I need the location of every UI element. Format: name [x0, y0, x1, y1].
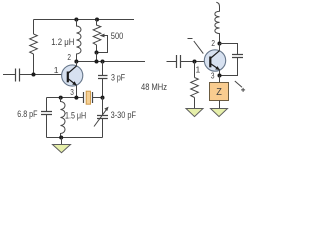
variable capacitor C4 3-30 pF: [97, 116, 108, 119]
ground GND1: [53, 138, 71, 153]
svg-text:6.8 pF: 6.8 pF: [17, 109, 38, 119]
capacitor C5 feedback: [232, 55, 243, 58]
capacitor C3 6.8 pF: [41, 112, 52, 115]
crystal Y1: [84, 91, 93, 104]
wire top rail Vcc: [34, 19, 135, 21]
wire input left: [3, 74, 16, 76]
leader line to Q2: [188, 39, 204, 54]
resistor R1: [30, 34, 38, 54]
wire Q1 collector: [76, 62, 78, 67]
svg-text:1: 1: [54, 65, 59, 75]
wire bottom row: [47, 137, 103, 139]
wire supply hook top right: [216, 2, 219, 7]
capacitor C3 6.8 pF wire upper: [46, 98, 48, 112]
ground GND3: [211, 109, 228, 117]
capacitor C1 input: [16, 69, 20, 82]
wire crystal to right node: [93, 97, 103, 99]
node bottom dot: [59, 136, 63, 140]
transistor Q2: [204, 50, 225, 71]
wire node2 rail: [77, 61, 146, 63]
node collector dot Q2: [218, 42, 222, 46]
svg-text:3: 3: [70, 87, 74, 97]
node base dot: [32, 73, 36, 77]
node3 dot inductor: [59, 96, 63, 100]
svg-text:Z: Z: [216, 86, 222, 98]
node emitter dot Q2: [218, 74, 222, 78]
svg-text:500: 500: [111, 31, 124, 41]
wire Q2 collector: [219, 44, 221, 52]
wire C6 to base: [181, 61, 205, 63]
svg-text:1: 1: [196, 64, 201, 74]
wire left bias branch upper: [33, 20, 35, 35]
svg-text:3 pF: 3 pF: [111, 73, 125, 83]
wire collector branch right: [220, 44, 238, 55]
plus marker: [241, 88, 245, 92]
capacitor C2 3 pF: [98, 76, 108, 79]
svg-text:2: 2: [67, 52, 71, 62]
impedance Z box: [210, 76, 229, 101]
potentiometer 500 body: [93, 20, 101, 53]
svg-text:1.5 μH: 1.5 μH: [65, 111, 86, 121]
wire input right stage: [167, 61, 177, 63]
svg-text:2: 2: [211, 38, 215, 48]
potentiometer wiper arm: [97, 36, 108, 53]
wire Q1 emitter: [76, 85, 78, 98]
potentiometer wiper arrowhead: [100, 34, 105, 38]
leader line to plus: [235, 81, 242, 87]
wire Z to ground: [219, 101, 221, 109]
svg-text:48 MHz: 48 MHz: [141, 82, 167, 92]
wire C2 lower: [102, 79, 104, 98]
node2 dot pot: [95, 60, 99, 64]
node base dot Q2: [193, 60, 197, 64]
svg-text:3: 3: [211, 71, 215, 81]
inductor 1.5 uH: [61, 98, 66, 138]
wire pot to node2 rail: [96, 53, 98, 62]
inductor 1.2 uH: [77, 20, 82, 62]
wire R1 to base node: [33, 54, 35, 75]
node2 dot cap: [101, 60, 105, 64]
node2 dot collector: [74, 60, 78, 64]
capacitor C6 input: [177, 55, 181, 68]
node3 dot emitter: [74, 96, 78, 100]
capacitor C2 3pF wire upper: [102, 62, 104, 76]
node3 dot right: [101, 96, 105, 100]
wire Q2 emitter: [219, 70, 221, 76]
wire emitter node3 row: [47, 97, 84, 99]
wire C5 lower: [220, 58, 238, 76]
node top rail dot B: [95, 18, 99, 22]
ground GND2: [186, 109, 203, 117]
node top rail dot A: [74, 18, 78, 22]
variable capacitor arrow: [94, 109, 107, 126]
resistor R2: [191, 62, 199, 109]
transistor Q1: [62, 65, 83, 86]
wire C4 lower: [102, 119, 104, 138]
svg-text:1.2 μH: 1.2 μH: [51, 37, 74, 47]
inductor L3 supply choke: [215, 7, 220, 44]
wire base: [20, 74, 62, 76]
svg-text:3-30 pF: 3-30 pF: [111, 110, 137, 120]
variable capacitor C4 wire upper: [102, 98, 104, 116]
wire C3 lower: [46, 115, 48, 138]
node pot bottom dot: [95, 51, 99, 55]
